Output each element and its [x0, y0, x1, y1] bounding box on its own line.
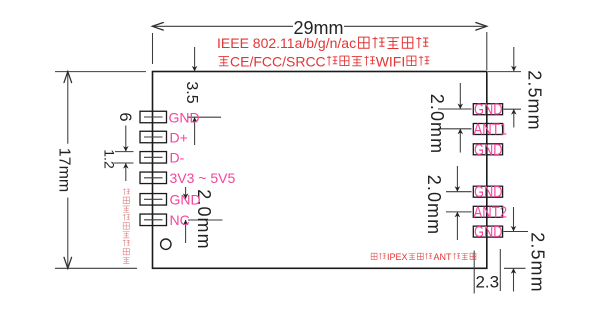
- svg-text:GND: GND: [474, 224, 503, 241]
- dimension 2.0mm bottom-right upper arrow: [456, 166, 458, 192]
- dimension 2.0mm left extension line at NC row: [188, 219, 223, 221]
- antenna pad ANT1: [473, 124, 502, 135]
- dimension 2.5mm bottom extension line at module bottom: [504, 267, 526, 269]
- svg-text:6: 6: [116, 112, 134, 121]
- dimension 1.2 extension tick: [114, 162, 134, 164]
- note antenna CJK 天线: [371, 253, 386, 259]
- dimension 3.5 extension line at pin 1 row: [188, 116, 221, 118]
- svg-text:D-: D-: [170, 150, 185, 166]
- dimension 17mm arrow top: [64, 72, 72, 83]
- svg-text:2.3: 2.3: [475, 273, 499, 292]
- note line 1 CJK 标准双通道: [359, 37, 429, 49]
- svg-text:ANT1: ANT1: [474, 122, 508, 139]
- pin 4 3V3~5V5 pad: [140, 172, 167, 184]
- pin 2 D+ pad: [140, 131, 167, 143]
- dimension 2.5mm top extension line at GND row: [504, 108, 522, 110]
- dimension 6 arrow: [125, 126, 127, 152]
- dimension 2.0mm top-right lower arrow: [459, 129, 461, 153]
- note vertical CJK 贴片或插件方式集成: [123, 188, 130, 263]
- svg-text:2.0mm: 2.0mm: [427, 94, 447, 155]
- svg-text:WIFI: WIFI: [376, 54, 406, 70]
- dimension 17mm extension line top: [55, 71, 146, 73]
- dimension 17mm extension line bottom: [55, 267, 137, 269]
- dimension 29mm arrow left: [152, 23, 163, 31]
- dimension 2.0mm bottom-right lower arrow: [456, 212, 458, 240]
- svg-text:3.5: 3.5: [183, 81, 200, 103]
- svg-text:17mm: 17mm: [56, 148, 73, 192]
- dimension 2.5mm bottom upper arrow: [513, 207, 515, 231]
- dimension 17mm line: [67, 72, 69, 269]
- module outline: [153, 72, 487, 269]
- dimension 2.0mm top-right extension line at ANT1 row: [438, 128, 472, 130]
- dimension 2.5mm bottom extension line at GND row: [504, 231, 529, 233]
- dimension 29mm extension line left: [152, 33, 154, 64]
- note antenna CJK 外接或: [409, 253, 432, 260]
- pin 5 GND pad: [140, 194, 167, 206]
- antenna pad GND top-right 2: [473, 144, 502, 155]
- dimension 3.5 upper arrow: [194, 47, 196, 71]
- mounting hole: [161, 239, 171, 249]
- svg-text:GND: GND: [170, 192, 201, 208]
- svg-text:2.5mm: 2.5mm: [525, 70, 545, 131]
- svg-text:GND: GND: [169, 109, 200, 125]
- dimension 2.5mm top extension line at module top: [488, 71, 521, 73]
- dimension 2.5mm bottom lower arrow: [513, 268, 515, 291]
- dimension 2.0mm top-right upper arrow: [459, 83, 461, 109]
- svg-text:GND: GND: [474, 184, 503, 201]
- svg-text:2.0mm: 2.0mm: [424, 175, 444, 236]
- dimension 6 extension tick: [115, 151, 134, 153]
- svg-text:GND: GND: [474, 102, 503, 119]
- dimension 2.3 right extension line: [499, 249, 501, 291]
- svg-text:CE/FCC/SRCC: CE/FCC/SRCC: [230, 54, 326, 70]
- svg-text:ANT2: ANT2: [474, 204, 508, 221]
- antenna pad GND bottom-right 2: [473, 226, 502, 237]
- antenna pad ANT2: [473, 206, 502, 217]
- pin 1 GND pad: [140, 111, 167, 123]
- svg-text:GND: GND: [474, 142, 503, 159]
- dimension 2.5mm top upper arrow: [513, 47, 515, 71]
- dimension 1.2 arrow: [125, 163, 127, 181]
- pin 3 D- pad: [140, 152, 167, 164]
- svg-text:1.2: 1.2: [102, 149, 118, 169]
- svg-text:3V3 ~ 5V5: 3V3 ~ 5V5: [170, 170, 236, 186]
- pin 6 NC pad: [140, 214, 167, 226]
- svg-text:IEEE 802.11a/b/g/n/ac: IEEE 802.11a/b/g/n/ac: [217, 35, 356, 51]
- dimension 2.0mm bottom-right extension line at GND row: [446, 191, 472, 193]
- dimension 2.0mm left upper arrow: [185, 187, 187, 199]
- svg-text:ANT: ANT: [434, 252, 453, 262]
- svg-text:IPEX: IPEX: [387, 252, 408, 262]
- note line 2 CJK 过: [219, 57, 230, 66]
- dimension 17mm arrow bottom: [64, 257, 72, 268]
- note line 2 CJK 认证双频: [327, 56, 375, 66]
- note line 2 CJK 模块: [407, 56, 429, 66]
- note antenna CJK 脚外延: [453, 253, 476, 260]
- antenna pad GND bottom-right 1: [473, 186, 502, 197]
- svg-text:D+: D+: [170, 129, 188, 145]
- dimension 29mm extension line right: [486, 32, 488, 70]
- dimension 2.3 left extension line: [473, 251, 475, 294]
- dimension 29mm arrow right: [476, 23, 487, 31]
- dimension 29mm line: [152, 25, 487, 27]
- dimension 2.5mm top lower arrow: [513, 109, 515, 127]
- dimension 2.0mm bottom-right extension line at ANT2 row: [446, 211, 472, 213]
- svg-text:2.5mm: 2.5mm: [528, 232, 548, 293]
- dimension 2.0mm left lower arrow: [185, 220, 187, 243]
- svg-text:NC: NC: [170, 212, 190, 228]
- dimension 3.5 lower arrow: [194, 117, 196, 145]
- antenna pad GND top-right 1: [473, 104, 502, 115]
- dimension 2.0mm top-right extension line at GND row: [438, 108, 472, 110]
